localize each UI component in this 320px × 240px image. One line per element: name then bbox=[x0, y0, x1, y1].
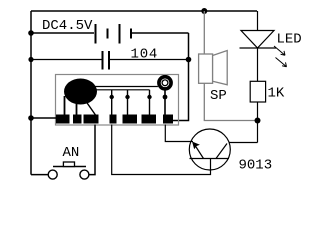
wire left rail to pad P1 bbox=[31, 117, 56, 119]
module pad P5 bbox=[123, 115, 138, 124]
svg-text:AN: AN bbox=[63, 145, 80, 161]
transistor Q1 emitter diagonal with arrow bbox=[194, 143, 204, 159]
svg-text:1K: 1K bbox=[268, 86, 285, 102]
bond wire blob to P2 bbox=[76, 102, 78, 115]
wire left rail bbox=[30, 11, 32, 175]
wire capacitor right lead bbox=[109, 59, 189, 61]
wire P3 down to push-button bbox=[89, 125, 95, 175]
module U1 board outline bbox=[56, 75, 179, 126]
wire right drop x=188.5 (battery minus to module pad P7) bbox=[173, 33, 189, 121]
wire left rail bottom to button bbox=[31, 174, 48, 176]
wire collector lead bbox=[229, 142, 258, 144]
module pad P1 bbox=[56, 115, 70, 124]
pin wire P6 bbox=[149, 90, 151, 115]
node bond dot P5 bbox=[125, 95, 129, 99]
node 104 junction on left rail bbox=[28, 57, 33, 62]
node bond dot P7 bbox=[163, 95, 168, 100]
transistor Q1 base bar bbox=[190, 158, 230, 160]
push button AN actuator bbox=[63, 162, 74, 167]
node bond dot P4 bbox=[110, 95, 114, 99]
transistor Q1 collector diagonal bbox=[216, 144, 227, 159]
node collector junction bbox=[255, 118, 261, 124]
bond wire blob to P1 bbox=[64, 96, 66, 115]
push button AN right terminal bbox=[80, 170, 89, 179]
wire battery left lead bbox=[31, 32, 94, 34]
push button AN left terminal bbox=[48, 170, 57, 179]
wire base from module P4 bbox=[112, 125, 211, 175]
wire capacitor left lead bbox=[31, 59, 103, 61]
LED D1 triangle bbox=[241, 31, 274, 49]
node left-rail pad1 junction bbox=[28, 115, 34, 121]
svg-text:LED: LED bbox=[277, 32, 302, 48]
LED light arrow 2 bbox=[276, 58, 287, 67]
svg-text:9013: 9013 bbox=[239, 158, 273, 174]
capacitor C1 104 bbox=[103, 51, 110, 70]
wire LED cathode to resistor bbox=[257, 48, 259, 81]
wire emitter from module P7 bbox=[165, 125, 193, 142]
bond wire blob to P3 diagonal bbox=[85, 100, 96, 115]
trimmer disc bbox=[157, 75, 173, 91]
svg-text:104: 104 bbox=[131, 47, 159, 63]
push button AN bar bbox=[53, 166, 86, 168]
module pad P7 bbox=[163, 115, 173, 124]
resistor R1 1K bbox=[250, 81, 265, 102]
wire LED anode from top rail bbox=[257, 11, 259, 31]
wire battery right lead to right drop bbox=[132, 32, 189, 34]
LED light arrow 1 bbox=[274, 46, 285, 55]
svg-text:DC4.5V: DC4.5V bbox=[42, 18, 93, 34]
speaker SP body bbox=[199, 54, 213, 83]
module COB blob bbox=[64, 79, 97, 105]
wire SP bottom lead to collector node bbox=[204, 83, 257, 120]
transistor Q1 9013 body circle bbox=[189, 129, 230, 170]
battery B1 DC4.5V bbox=[96, 24, 132, 44]
module pad P2 bbox=[73, 115, 82, 124]
module pad P6 bbox=[142, 115, 157, 124]
pin wire P5 bbox=[127, 90, 129, 115]
pin wire trimmer to P7 bbox=[164, 90, 166, 115]
wire SP top lead bbox=[203, 11, 205, 54]
LED D1 cathode bar bbox=[240, 47, 277, 49]
node top rail SP junction bbox=[201, 8, 207, 14]
module pad P4 bbox=[110, 115, 117, 124]
wire blob double line to trimmer bbox=[95, 87, 158, 90]
node bond dot P6 bbox=[147, 95, 151, 99]
node junction cap/battery-minus bbox=[186, 57, 192, 63]
svg-text:SP: SP bbox=[210, 88, 227, 104]
speaker SP cone bbox=[213, 51, 228, 85]
wire resistor bottom to collector node bbox=[257, 102, 259, 143]
pin wire P4 bbox=[111, 90, 113, 115]
node battery junction on left rail bbox=[28, 30, 34, 36]
wire top rail (+V) bbox=[31, 10, 257, 12]
module pad P3 bbox=[84, 115, 99, 124]
